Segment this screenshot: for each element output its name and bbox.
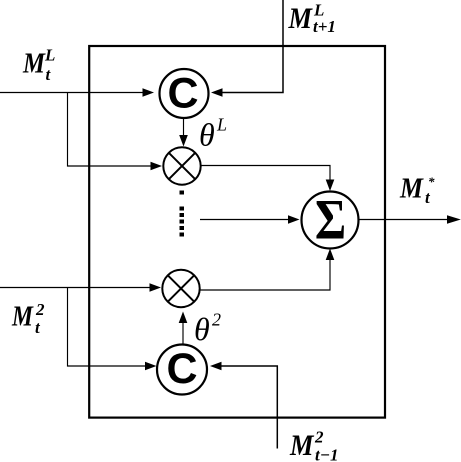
svg-text:M: M [288,2,314,35]
svg-text:Σ: Σ [315,188,346,251]
svg-text:θ: θ [194,311,210,347]
svg-text:M: M [11,301,34,333]
svg-text:M: M [22,48,46,80]
svg-text:2: 2 [35,300,45,319]
svg-text:2: 2 [212,310,221,330]
svg-text:θ: θ [199,117,215,153]
svg-text:C: C [167,69,198,117]
svg-text:M: M [289,429,315,462]
svg-text:C: C [166,345,197,393]
svg-text:M: M [399,173,424,205]
svg-text:*: * [428,174,435,189]
svg-text:t−1: t−1 [315,446,339,462]
svg-text:L: L [216,115,227,135]
svg-text:L: L [44,46,55,65]
svg-text:t+1: t+1 [313,17,336,36]
svg-text:2: 2 [314,428,324,447]
